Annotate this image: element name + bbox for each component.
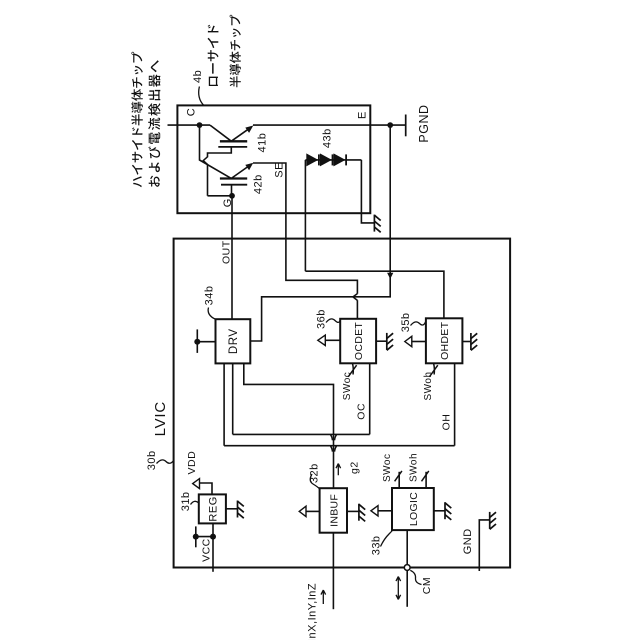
diode 43b D2: [320, 153, 332, 166]
funnel junction2: [331, 446, 337, 451]
wire OHDET left pin: [412, 341, 426, 343]
triangle VDD: [193, 479, 200, 489]
leader 31b: [191, 501, 199, 504]
svg-text:LVIC: LVIC: [152, 401, 169, 436]
block OHDET box: [426, 318, 463, 363]
svg-text:SWoh: SWoh: [408, 453, 419, 482]
ground REG: [237, 501, 239, 518]
block LVIC box: [174, 239, 511, 568]
svg-text:DRV: DRV: [228, 329, 240, 355]
switch SWoh LOGIC slash: [422, 471, 429, 481]
switch SWoc slash: [348, 365, 356, 377]
jp text high-side col2: [148, 60, 160, 187]
wire 42b gate tap: [231, 185, 233, 196]
svg-text:GND: GND: [462, 528, 474, 554]
transistor 41b body bar: [220, 140, 247, 142]
wire OHDET right pin: [462, 341, 471, 343]
svg-text:42b: 42b: [253, 174, 265, 194]
wire VCC stub: [195, 526, 197, 547]
wire anode to OHDET: [305, 271, 444, 318]
svg-text:4b: 4b: [192, 70, 204, 83]
svg-text:36b: 36b: [316, 309, 328, 329]
svg-text:LOGIC: LOGIC: [408, 492, 420, 526]
wire INBUF bottom In: [332, 533, 334, 610]
svg-text:VCC: VCC: [200, 538, 212, 562]
wire 41b gate down: [207, 164, 209, 196]
svg-text:SE: SE: [273, 162, 285, 178]
wire merge bus2: [224, 445, 455, 447]
switch SWoh slash: [429, 365, 437, 377]
svg-text:34b: 34b: [203, 286, 215, 306]
svg-text:g2: g2: [349, 461, 361, 474]
wire OCDET left pin: [325, 339, 340, 341]
leader 33b: [381, 530, 393, 547]
triangle LOGIC input: [371, 506, 378, 516]
wire diode chain: [305, 159, 361, 161]
wire DRV left stub: [196, 329, 198, 353]
leader 30b: [157, 460, 174, 464]
wire LOGIC bottom CM: [406, 530, 408, 565]
switch SWoh stub: [433, 363, 436, 374]
triangle INBUF input: [299, 506, 306, 516]
wire DRV left pin: [197, 341, 215, 343]
terminal PGND bar: [405, 115, 407, 137]
wire SE hop: [353, 294, 358, 301]
wire OH: [454, 363, 456, 445]
leader 32b: [310, 474, 319, 489]
node VCC dot left: [193, 534, 199, 540]
wire C to high-side chip: [168, 124, 211, 126]
wire LOGIC right pin: [434, 510, 445, 512]
svg-text:30b: 30b: [146, 450, 158, 470]
node G dot: [229, 193, 235, 199]
svg-text:SWoh: SWoh: [423, 371, 434, 400]
arrow CM updown: [396, 577, 401, 600]
chip 4b box: [177, 105, 370, 213]
arrow In up: [321, 590, 326, 604]
node CM circle: [404, 565, 410, 571]
wire REG right pin: [226, 508, 238, 510]
wire C drop: [200, 125, 232, 178]
wire 41b gate tap: [208, 147, 232, 157]
wire E rail: [253, 124, 406, 126]
switch SWoh LOGIC pin: [425, 472, 427, 488]
ground OHDET: [470, 333, 472, 350]
wire VCC link: [196, 536, 213, 538]
switch SWoc stub: [352, 363, 355, 374]
wire CM below: [406, 570, 408, 606]
svg-text:C: C: [186, 108, 198, 116]
svg-text:31b: 31b: [180, 491, 192, 511]
jp text high-side col1: [131, 52, 143, 187]
ground OCDET: [386, 333, 388, 350]
wire OCDET right pin: [376, 340, 387, 342]
leader CM: [410, 570, 421, 584]
svg-text:REG: REG: [207, 496, 219, 521]
block REG box: [199, 494, 226, 523]
leader 36b: [326, 319, 340, 323]
wire g2 mid: [333, 434, 335, 445]
wire INBUF left pin: [306, 510, 320, 512]
wire merge bus1: [233, 433, 370, 435]
leader 35b: [411, 321, 426, 326]
ground GND: [489, 512, 491, 529]
transistor 42b emitter arrow: [245, 163, 253, 170]
wire VCC down: [212, 537, 214, 572]
ground INBUF: [358, 504, 360, 521]
jp text low-side chip col1: [208, 25, 219, 86]
leader 34b: [208, 308, 215, 320]
svg-text:OHDET: OHDET: [439, 321, 451, 360]
wire OUT: [231, 196, 233, 319]
block LOGIC box: [392, 488, 434, 530]
wire SE to OCDET: [356, 300, 358, 319]
svg-text:41b: 41b: [257, 133, 269, 153]
arrow g2: [336, 464, 341, 476]
triangle OCDET input: [318, 335, 326, 345]
transistor 42b gate bar: [221, 184, 247, 186]
arrow E drop: [387, 273, 393, 279]
block DRV box: [216, 319, 251, 363]
transistor 41b emitter arrow: [245, 126, 253, 133]
wire REG top VDD: [200, 483, 213, 494]
wire OC: [369, 363, 371, 434]
svg-text:43b: 43b: [321, 128, 333, 148]
transistor 42b emitter: [231, 166, 249, 179]
svg-text:OCDET: OCDET: [353, 322, 365, 361]
ground LOGIC: [444, 502, 446, 519]
wire G rail: [208, 195, 233, 197]
svg-text:E: E: [357, 111, 369, 119]
svg-text:OH: OH: [440, 414, 452, 431]
wire diode anode: [304, 160, 306, 271]
wire INBUF right pin: [347, 510, 359, 512]
diode 43b D3: [334, 153, 346, 166]
switch SWoc LOGIC pin: [398, 472, 400, 488]
wire DRV riser3: [244, 363, 334, 434]
transistor 41b collector diag: [210, 125, 231, 141]
wire 41b gate hop: [203, 157, 207, 165]
node DRV left dot: [194, 339, 200, 345]
wire DRV riser2: [232, 363, 234, 434]
wire g2 to INBUF: [333, 446, 335, 489]
svg-text:CM: CM: [421, 577, 433, 594]
jp text low-side chip col2: [230, 15, 241, 87]
node E junction dot: [387, 122, 393, 128]
node VCC dot right: [210, 534, 216, 540]
transistor 41b emitter: [231, 128, 249, 141]
svg-text:InX,InY,InZ: InX,InY,InZ: [307, 583, 319, 640]
svg-text:INBUF: INBUF: [328, 494, 340, 527]
svg-text:SWoc: SWoc: [342, 372, 353, 401]
funnel junction1: [331, 435, 337, 440]
svg-text:OC: OC: [355, 403, 367, 420]
wire LOGIC left pin: [378, 510, 392, 512]
wire SE rail: [253, 163, 357, 294]
svg-text:35b: 35b: [400, 312, 412, 332]
wire REG bottom pin: [212, 523, 214, 536]
transistor 42b body bar: [220, 177, 247, 179]
wire diode cathode to ground: [361, 160, 374, 223]
wire E drop: [250, 125, 390, 341]
node C junction dot: [197, 122, 203, 128]
svg-text:OUT: OUT: [220, 240, 232, 264]
diode 43b D1: [306, 153, 318, 166]
svg-text:VDD: VDD: [186, 451, 198, 475]
block OCDET box: [340, 319, 376, 364]
block INBUF box: [320, 488, 347, 533]
ground chip: [373, 215, 375, 232]
svg-text:PGND: PGND: [417, 104, 431, 142]
leader 4b: [199, 87, 204, 106]
svg-text:SWoc: SWoc: [382, 454, 393, 483]
wire GND: [479, 520, 489, 571]
transistor 41b gate bar: [218, 146, 247, 148]
triangle OHDET input: [405, 336, 412, 346]
wire DRV riser1: [223, 363, 225, 445]
switch SWoc LOGIC slash: [395, 471, 402, 481]
